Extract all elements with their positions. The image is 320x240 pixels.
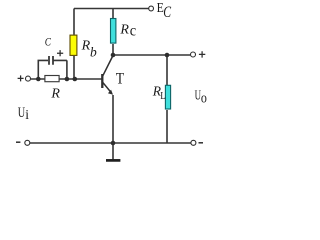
resistor Rc bbox=[111, 19, 116, 44]
wire emitter vertical bbox=[112, 95, 114, 143]
terminal input plus bbox=[26, 76, 31, 81]
wire input base rail bbox=[31, 78, 102, 80]
svg-text:C: C bbox=[163, 4, 171, 21]
svg-text:R: R bbox=[50, 87, 60, 102]
svg-text:b: b bbox=[90, 45, 97, 60]
wire Rb bottom stub bbox=[73, 56, 75, 79]
junction node base-mid bbox=[65, 77, 70, 82]
terminal Ec bbox=[149, 6, 154, 11]
svg-text:T: T bbox=[116, 71, 125, 88]
svg-text:o: o bbox=[201, 90, 207, 106]
wire bottom rail bbox=[30, 142, 191, 144]
svg-text:R: R bbox=[119, 23, 129, 38]
junction node base-Rb bbox=[73, 77, 78, 82]
plus sign output bbox=[199, 51, 205, 57]
capacitor + polarity mark bbox=[57, 50, 63, 56]
junction node output-RL bbox=[165, 53, 170, 58]
wire capacitor branch left bbox=[38, 60, 48, 79]
plus sign input bbox=[18, 75, 24, 81]
ground vertical bbox=[112, 143, 114, 159]
terminal output plus bbox=[191, 52, 196, 57]
wire collector output rail bbox=[113, 54, 190, 56]
transistor T emitter arrowhead bbox=[108, 90, 113, 95]
junction node base-left bbox=[36, 77, 41, 82]
svg-text:i: i bbox=[25, 107, 29, 122]
wire RL bottom bbox=[166, 110, 168, 143]
wire capacitor branch right bbox=[54, 60, 67, 79]
resistor RL bbox=[165, 85, 170, 109]
svg-text:C: C bbox=[45, 35, 52, 49]
capacitor C plates bbox=[49, 56, 53, 65]
junction node collector bbox=[111, 53, 116, 58]
minus sign input bbox=[16, 141, 20, 143]
wire Rc top stub bbox=[112, 9, 114, 19]
resistor R (source) bbox=[45, 76, 59, 82]
wire Rc bottom stub bbox=[112, 44, 114, 55]
transistor T base bar bbox=[101, 74, 103, 88]
svg-text:L: L bbox=[160, 90, 166, 102]
resistor Rb bbox=[70, 35, 77, 55]
terminal output minus bbox=[191, 140, 196, 145]
svg-text:c: c bbox=[130, 22, 137, 39]
ground bbox=[106, 159, 120, 162]
transistor T emitter line bbox=[102, 82, 111, 93]
wire Rb top stub bbox=[73, 9, 75, 35]
wire top rail bbox=[74, 8, 149, 10]
transistor T collector line bbox=[102, 56, 113, 77]
junction node emitter-bottom bbox=[111, 141, 116, 146]
wire RL top bbox=[166, 55, 168, 85]
minus sign output bbox=[199, 142, 204, 144]
terminal input minus bbox=[25, 140, 30, 145]
